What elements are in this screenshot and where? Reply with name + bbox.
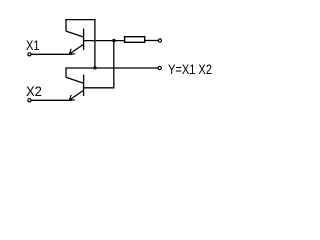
wire base bias vertical <box>113 41 115 88</box>
junction dot at output node <box>93 66 96 69</box>
wire Q1 base lead to resistor <box>84 40 124 42</box>
wire Q2 base lead <box>84 87 114 89</box>
wire Q1 collector right rail down to output node <box>94 20 96 68</box>
wire X1 input <box>31 53 72 55</box>
label X2 <box>26 83 42 99</box>
wire Q1 collector left vertical <box>65 19 67 31</box>
bias terminal (open circle) <box>158 39 161 42</box>
transistor Q1 collector diagonal <box>66 31 84 37</box>
transistor Q1 emitter (arrow toward X1 wire) <box>69 44 83 54</box>
wire Q1 collector top horizontal <box>65 19 95 21</box>
label Y=X1 X2 <box>168 61 212 77</box>
label X1 <box>26 37 40 53</box>
junction dot on base bias line <box>112 39 115 42</box>
transistor Q2 collector diagonal <box>66 77 84 83</box>
transistor Q1 emitter arrowhead <box>69 49 75 54</box>
transistor Q2 emitter (arrow toward X2 wire) <box>69 90 83 100</box>
input terminal X2 (open circle) <box>28 99 31 102</box>
transistor Q2 base bar <box>83 75 85 97</box>
wire Q2 collector left vertical <box>65 67 67 77</box>
transistor Q1 base bar <box>83 29 85 51</box>
wire output line Y <box>66 67 158 69</box>
transistor Q2 emitter arrowhead <box>69 95 75 100</box>
wire resistor to bias terminal <box>145 40 158 42</box>
output terminal (open circle) <box>158 66 161 69</box>
resistor R (bias) <box>125 37 145 43</box>
wire X2 input <box>31 99 72 101</box>
input terminal X1 (open circle) <box>28 53 31 56</box>
